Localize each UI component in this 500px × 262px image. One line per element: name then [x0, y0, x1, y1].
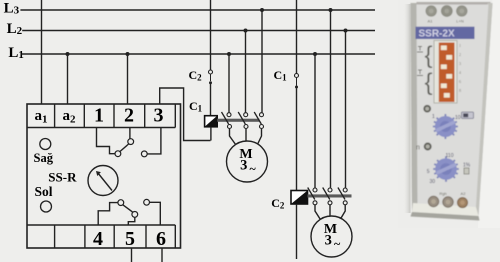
- svg-text:SSR-2X: SSR-2X: [419, 29, 455, 40]
- bus L2: [7, 21, 375, 37]
- contact C1 pole 1: [222, 112, 239, 149]
- contactor C2 coil: [291, 191, 308, 260]
- wire a1 supply: [41, 0, 43, 104]
- mode icon: [462, 112, 474, 119]
- svg-text:5: 5: [427, 169, 430, 175]
- relay device box SS-R: [27, 104, 181, 248]
- wire terminal3 to coil C1: [160, 88, 211, 141]
- indicator lamp Sol: [41, 201, 52, 212]
- contact C2 pole 2: [323, 188, 332, 217]
- svg-text:6: 6: [459, 79, 461, 84]
- photo bottom screw 3: [458, 198, 468, 208]
- nameplate SSR-2X: [416, 27, 475, 40]
- svg-text:5: 5: [125, 228, 135, 250]
- svg-text:3: 3: [459, 61, 461, 66]
- wire below terminal 6: [161, 248, 163, 262]
- wire C1 phase A from L1: [227, 52, 231, 112]
- indicator lamp Sag: [40, 139, 51, 150]
- wire C1 coil feed: [210, 0, 212, 70]
- wire a2 from L1: [66, 52, 70, 104]
- svg-text:30: 30: [430, 179, 436, 185]
- svg-text:3: 3: [240, 157, 247, 173]
- wire C1 phase B from L2: [244, 29, 248, 113]
- svg-text:Sol: Sol: [35, 184, 53, 199]
- product photo background: [398, 0, 500, 228]
- contact C1 pole 3: [254, 112, 263, 148]
- C1 linkage bar: [217, 119, 259, 122]
- svg-text:1: 1: [459, 43, 461, 48]
- dip scale digits: [459, 43, 461, 93]
- hourglass icon: [464, 168, 469, 174]
- svg-text:~: ~: [334, 236, 341, 250]
- relay print icon upper: [417, 47, 423, 76]
- svg-text:3: 3: [325, 232, 332, 248]
- aux contact C1 (interlock): [295, 74, 299, 191]
- svg-text:4: 4: [93, 228, 103, 250]
- timer dial: [88, 166, 118, 196]
- junction t2-L1: [126, 52, 130, 56]
- terminal row top: [27, 104, 175, 128]
- relay changeover contact lower (4-5-6): [98, 199, 160, 225]
- contactor C1 coil: [205, 116, 218, 141]
- photo terminal screw L: [457, 6, 467, 16]
- relay changeover contact upper (1-2-3): [97, 128, 161, 157]
- photo terminal screw A1: [426, 6, 436, 16]
- contact C2 pole 3: [338, 188, 347, 222]
- photo bottom screw 2: [443, 197, 453, 207]
- knob 2: [427, 153, 471, 185]
- dip switch block: [434, 41, 457, 104]
- bus L3: [4, 1, 375, 17]
- photo bottom screw 1: [428, 196, 438, 206]
- wire C2 phase B from L3: [329, 8, 333, 188]
- relay unit body (photo): [411, 2, 493, 221]
- svg-text:~: ~: [250, 161, 257, 175]
- knob 1: [432, 114, 461, 139]
- contact C1 pole 2: [238, 112, 248, 141]
- svg-text:3: 3: [154, 105, 164, 127]
- svg-text:Sağ: Sağ: [34, 151, 54, 165]
- svg-text:A1: A1: [428, 19, 434, 24]
- svg-text:1: 1: [94, 105, 104, 127]
- wire below terminal 5: [131, 248, 133, 262]
- svg-text:10: 10: [455, 115, 461, 121]
- motor M2: [311, 216, 352, 257]
- svg-text:n: n: [416, 145, 420, 152]
- C2 linkage bar: [308, 194, 352, 197]
- aux contact C2 (interlock): [209, 70, 213, 116]
- svg-text:4: 4: [459, 70, 461, 75]
- svg-text:2: 2: [124, 105, 134, 127]
- wire C1 phase C from L3: [260, 8, 264, 112]
- junction a2-L1: [66, 52, 70, 56]
- contact C2 pole 1: [308, 188, 322, 223]
- svg-text:{: {: [425, 42, 433, 69]
- svg-text:{: {: [425, 69, 433, 96]
- photo terminal screw mid: [441, 6, 452, 17]
- svg-text:L+N: L+N: [456, 19, 464, 24]
- svg-text:6: 6: [156, 228, 166, 250]
- svg-text:8: 8: [459, 88, 461, 93]
- bus L1: [8, 45, 375, 61]
- svg-text:2: 2: [459, 52, 461, 57]
- svg-text:1: 1: [432, 114, 435, 120]
- svg-text:SS-R: SS-R: [48, 169, 77, 184]
- svg-text:Rgh: Rgh: [439, 191, 446, 196]
- LED n: [416, 144, 431, 152]
- svg-text:A2: A2: [461, 191, 467, 196]
- wire terminal2 from L1: [126, 52, 130, 104]
- wire C2 coil feed: [296, 0, 298, 74]
- motor M1: [227, 141, 268, 182]
- terminal row bottom: [27, 225, 175, 248]
- LED L: [424, 106, 430, 112]
- wire C2 phase C from L2: [344, 29, 348, 188]
- svg-text:110: 110: [446, 153, 454, 159]
- wire C2 phase A from L1: [313, 52, 317, 188]
